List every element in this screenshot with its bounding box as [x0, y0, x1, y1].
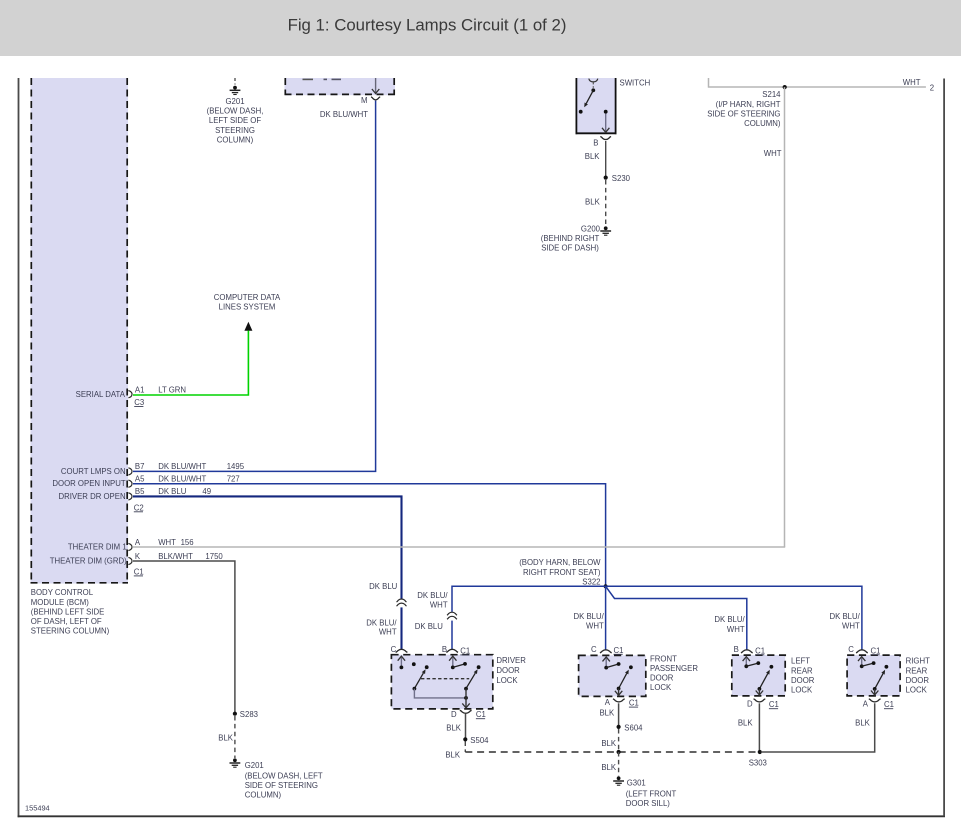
splice S322	[604, 584, 608, 588]
right rear internal arrow	[861, 658, 863, 667]
svg-text:WHT: WHT	[158, 538, 176, 547]
wire S322 right to right rear	[606, 586, 862, 650]
svg-text:DOOR: DOOR	[906, 676, 930, 685]
diagram bottom border	[18, 815, 945, 817]
svg-text:B: B	[593, 139, 598, 148]
svg-text:1750: 1750	[205, 552, 223, 561]
splice S504	[463, 737, 467, 741]
ground G301	[617, 776, 621, 780]
svg-text:BODY CONTROL: BODY CONTROL	[31, 588, 94, 597]
front passenger exit arrow	[618, 689, 620, 696]
right rear door lock box	[847, 655, 900, 696]
dashed BLK S504 down	[464, 742, 466, 753]
svg-text:DRIVER DR OPEN: DRIVER DR OPEN	[58, 492, 125, 501]
front passenger contact dot	[629, 665, 633, 669]
svg-text:STEERING: STEERING	[215, 126, 255, 135]
wire BLK driver D to S504	[465, 714, 467, 738]
svg-text:PASSENGER: PASSENGER	[650, 664, 698, 673]
svg-text:THEATER DIM (GRD): THEATER DIM (GRD)	[50, 557, 127, 566]
driver pin B arc	[446, 649, 458, 652]
pin K connector	[128, 557, 132, 564]
clipped text remnants in box	[303, 78, 314, 80]
svg-text:(BODY HARN, BELOW: (BODY HARN, BELOW	[519, 558, 601, 567]
svg-text:Fig 1: Courtesy Lamps Circuit: Fig 1: Courtesy Lamps Circuit (1 of 2)	[288, 16, 567, 35]
wire DK BLU/WHT connector to driver pin C	[400, 607, 402, 649]
wire S322 down to front passenger	[605, 586, 607, 650]
svg-text:S230: S230	[612, 174, 631, 183]
left rear main blade	[759, 674, 767, 689]
wire WHT theater dim 1 (A to S214)	[133, 546, 785, 548]
arrow inside box pointing down to pin M	[375, 78, 377, 93]
svg-text:COURT LMPS ON: COURT LMPS ON	[61, 467, 126, 476]
svg-text:C1: C1	[476, 710, 486, 719]
svg-text:S214: S214	[762, 90, 781, 99]
svg-text:C3: C3	[134, 398, 144, 407]
switch contact dot right	[604, 110, 608, 114]
pin A1 connector	[128, 391, 132, 398]
svg-text:G201: G201	[245, 761, 264, 770]
left rear internal arrow	[745, 658, 747, 667]
svg-text:(BELOW DASH, LEFT: (BELOW DASH, LEFT	[245, 771, 323, 780]
svg-text:REAR: REAR	[906, 666, 928, 675]
ground G201	[233, 86, 237, 90]
pin A5 connector	[128, 480, 132, 487]
svg-text:BLK: BLK	[855, 718, 871, 727]
svg-text:LEFT SIDE OF: LEFT SIDE OF	[209, 116, 262, 125]
svg-text:C1: C1	[134, 567, 144, 576]
svg-text:(BELOW DASH,: (BELOW DASH,	[207, 107, 264, 116]
svg-text:B: B	[442, 645, 447, 654]
inline connector on driver C wire	[397, 599, 407, 602]
svg-text:A: A	[605, 698, 611, 707]
svg-text:C1: C1	[629, 699, 639, 708]
driver internal link dashed	[421, 678, 469, 680]
driver left blade bottom dot	[413, 687, 417, 691]
svg-text:SERIAL DATA: SERIAL DATA	[76, 390, 126, 399]
front passenger short blade	[606, 664, 618, 668]
driver exit arrow to pin D	[465, 689, 467, 708]
driver right contact dot	[477, 665, 481, 669]
pin M connector arc	[371, 97, 380, 100]
pin A connector	[128, 543, 132, 550]
svg-text:DOOR: DOOR	[496, 666, 520, 675]
svg-text:BLK: BLK	[601, 763, 617, 772]
svg-text:C2: C2	[134, 503, 144, 512]
ground G201 stub wire	[234, 78, 236, 85]
left rear short blade dot	[756, 661, 760, 665]
svg-text:DK BLU/WHT: DK BLU/WHT	[158, 462, 206, 471]
wire WHT horizontal to page edge	[708, 86, 926, 88]
svg-text:G201: G201	[225, 97, 244, 106]
switch pin B connector arc	[600, 137, 611, 140]
svg-text:C1: C1	[614, 646, 624, 655]
svg-text:BLK: BLK	[218, 733, 234, 742]
svg-text:SWITCH: SWITCH	[620, 79, 651, 88]
svg-text:SIDE OF STEERING: SIDE OF STEERING	[245, 781, 318, 790]
right rear main blade	[875, 674, 883, 689]
svg-text:B: B	[734, 645, 739, 654]
front passenger pin C arc	[600, 650, 612, 653]
svg-text:WHT: WHT	[586, 622, 604, 631]
svg-text:COLUMN): COLUMN)	[217, 135, 254, 144]
svg-text:STEERING COLUMN): STEERING COLUMN)	[31, 627, 110, 636]
svg-text:WHT: WHT	[430, 600, 448, 609]
arrow to computer data lines	[244, 322, 252, 331]
svg-text:BLK: BLK	[585, 198, 601, 207]
svg-text:DK BLU/: DK BLU/	[366, 618, 397, 627]
driver B short blade dot	[463, 662, 467, 666]
svg-text:A1: A1	[135, 386, 145, 395]
splice S604	[617, 725, 621, 729]
left rear pin B arc	[741, 650, 753, 653]
svg-text:SIDE OF STEERING: SIDE OF STEERING	[707, 109, 780, 118]
svg-text:LINES SYSTEM: LINES SYSTEM	[219, 302, 276, 311]
diagram right border	[943, 79, 945, 817]
wire WHT stub from top	[708, 78, 710, 87]
ground G200	[604, 226, 608, 230]
svg-text:WHT: WHT	[379, 628, 397, 637]
bus junction dot	[617, 750, 621, 754]
diagram left border	[18, 78, 20, 817]
dashed BLK wire S283 to G201	[234, 716, 236, 758]
svg-text:(I/P HARN, RIGHT: (I/P HARN, RIGHT	[716, 100, 781, 109]
svg-text:LOCK: LOCK	[791, 686, 813, 695]
svg-text:LOCK: LOCK	[650, 683, 672, 692]
driver left blade	[414, 673, 423, 688]
left rear blade bottom dot	[758, 687, 762, 691]
inline connector on driver B wire	[447, 612, 457, 615]
svg-text:LOCK: LOCK	[906, 686, 928, 695]
svg-text:727: 727	[227, 475, 240, 484]
svg-text:LOCK: LOCK	[496, 676, 518, 685]
pin B7 connector	[128, 468, 132, 475]
svg-text:49: 49	[202, 487, 211, 496]
svg-text:156: 156	[181, 538, 194, 547]
wire DK BLU/WHT door open input (A5 to S322)	[133, 484, 606, 587]
svg-text:DOOR: DOOR	[650, 674, 674, 683]
splice S214	[783, 85, 787, 89]
left rear exit arrow	[758, 689, 760, 695]
driver left contact dot	[425, 665, 429, 669]
wire DK BLU driver dr open (B5)	[133, 496, 402, 598]
wire S322 left to driver pin B	[452, 586, 606, 612]
splice S230	[604, 176, 608, 180]
svg-text:DOOR: DOOR	[791, 676, 815, 685]
right rear exit arrow	[874, 689, 876, 695]
driver right blade bottom dot	[464, 687, 468, 691]
wire BLK switch to S230	[605, 141, 607, 176]
svg-text:G301: G301	[627, 779, 646, 788]
driver B short blade	[453, 664, 465, 668]
svg-text:C: C	[848, 645, 854, 654]
left rear door lock box	[732, 655, 785, 696]
svg-text:A: A	[135, 538, 141, 547]
svg-text:G200: G200	[581, 225, 601, 234]
right rear blade bottom dot	[873, 687, 877, 691]
front passenger internal arrow	[605, 658, 607, 668]
svg-text:C: C	[391, 645, 397, 654]
svg-text:DK BLU/WHT: DK BLU/WHT	[158, 475, 206, 484]
splice S303	[758, 750, 762, 754]
svg-text:C1: C1	[769, 700, 779, 709]
switch common dot	[591, 88, 595, 92]
svg-text:(BEHIND LEFT SIDE: (BEHIND LEFT SIDE	[31, 607, 105, 616]
svg-text:S504: S504	[470, 736, 489, 745]
dashed BLK bus to G301	[618, 752, 620, 776]
right rear pin C arc	[856, 650, 868, 653]
svg-text:WHT: WHT	[903, 78, 921, 87]
svg-text:RIGHT FRONT SEAT): RIGHT FRONT SEAT)	[523, 568, 601, 577]
front passenger blade bottom dot	[617, 687, 621, 691]
switch top connector arc Y	[589, 79, 598, 82]
svg-text:S303: S303	[749, 759, 767, 768]
svg-text:DK BLU: DK BLU	[415, 622, 444, 631]
svg-text:BLK: BLK	[446, 724, 462, 733]
driver contact dot c-closed	[412, 662, 416, 666]
switch blade with arrow	[586, 90, 593, 103]
svg-text:A5: A5	[135, 475, 145, 484]
svg-text:DK BLU/: DK BLU/	[573, 612, 604, 621]
front passenger door lock box	[579, 655, 646, 696]
svg-text:BLK: BLK	[585, 152, 601, 161]
driver right blade	[466, 673, 475, 689]
svg-text:D: D	[747, 700, 753, 709]
svg-text:(BEHIND RIGHT: (BEHIND RIGHT	[541, 234, 600, 243]
svg-text:COLUMN): COLUMN)	[744, 119, 781, 128]
svg-text:BLK: BLK	[599, 708, 615, 717]
svg-text:C: C	[591, 645, 597, 654]
left rear contact dot	[770, 665, 774, 669]
body control module BCM box (dashed, clipped top)	[31, 78, 129, 584]
svg-text:BLK: BLK	[445, 751, 461, 760]
svg-text:DK BLU/WHT: DK BLU/WHT	[320, 110, 368, 119]
driver door lock box	[391, 655, 492, 709]
driver bottom junction dot	[464, 696, 468, 700]
dashed BLK bus S504 to S303	[465, 751, 760, 753]
wire BLK/WHT theater dim grd (K to S283)	[133, 561, 235, 712]
dashed BLK S604 to bus	[618, 729, 620, 752]
svg-text:BLK/WHT: BLK/WHT	[158, 552, 193, 561]
header bar	[0, 0, 961, 56]
svg-text:2: 2	[930, 83, 934, 92]
svg-text:FRONT: FRONT	[650, 654, 677, 663]
front passenger short blade dot	[617, 662, 621, 666]
svg-text:B5: B5	[135, 487, 145, 496]
svg-text:(LEFT FRONT: (LEFT FRONT	[626, 790, 677, 799]
wire LT GRN serial data	[133, 331, 248, 396]
svg-text:REAR: REAR	[791, 666, 813, 675]
svg-text:C1: C1	[871, 646, 881, 655]
wire BLK left rear D to S303	[758, 703, 760, 752]
svg-text:S604: S604	[624, 723, 643, 732]
right rear short blade	[862, 663, 874, 666]
svg-text:C1: C1	[884, 700, 894, 709]
svg-text:BLK: BLK	[601, 739, 617, 748]
svg-text:DK BLU: DK BLU	[369, 582, 398, 591]
dashed BLK wire S230 to G200	[605, 180, 607, 226]
svg-text:S283: S283	[240, 710, 258, 719]
driver pin B internal arrow	[452, 657, 454, 667]
driver pin C internal arrow	[400, 657, 402, 667]
front passenger main blade	[619, 673, 627, 688]
switch output arrow down to pin B	[605, 114, 607, 133]
clipped connector box above M	[285, 78, 396, 95]
svg-text:LEFT: LEFT	[791, 657, 810, 666]
svg-text:DK BLU/: DK BLU/	[417, 591, 448, 600]
wire BLK passenger A to S604	[618, 703, 620, 725]
svg-text:DRIVER: DRIVER	[496, 656, 526, 665]
wire S322 jog to left rear	[606, 586, 747, 650]
svg-text:D: D	[451, 710, 457, 719]
svg-text:1495: 1495	[227, 462, 245, 471]
svg-text:RIGHT: RIGHT	[906, 657, 930, 666]
left rear pin D arc	[754, 699, 766, 702]
svg-text:DOOR SILL): DOOR SILL)	[626, 799, 671, 808]
svg-text:LT GRN: LT GRN	[158, 386, 186, 395]
right rear pin A arc	[869, 699, 881, 702]
svg-text:DOOR OPEN INPUT: DOOR OPEN INPUT	[52, 479, 125, 488]
svg-text:WHT: WHT	[842, 622, 860, 631]
wire WHT vertical S214 down	[784, 87, 786, 547]
front passenger pin A arc	[613, 699, 625, 702]
right rear short blade dot	[872, 661, 876, 665]
svg-text:MODULE (BCM): MODULE (BCM)	[31, 598, 89, 607]
svg-text:DK BLU: DK BLU	[158, 487, 187, 496]
svg-text:C1: C1	[755, 646, 765, 655]
right rear contact dot	[885, 665, 889, 669]
driver bottom wire left	[414, 689, 466, 698]
ground G201 bottom	[233, 758, 237, 762]
svg-text:A: A	[863, 700, 869, 709]
svg-text:WHT: WHT	[764, 149, 782, 158]
svg-text:THEATER DIM 1: THEATER DIM 1	[68, 543, 127, 552]
wire DK BLU connector to driver pin B	[451, 621, 453, 650]
svg-text:BLK: BLK	[738, 718, 754, 727]
switch contact dot left	[579, 110, 583, 114]
driver pin C arc	[396, 649, 408, 652]
svg-text:155494: 155494	[25, 804, 50, 813]
svg-text:K: K	[135, 552, 141, 561]
splice S283	[233, 712, 237, 716]
svg-text:C1: C1	[460, 646, 470, 655]
pin B5 connector	[128, 493, 132, 500]
svg-text:COMPUTER DATA: COMPUTER DATA	[214, 293, 281, 302]
svg-text:OF DASH, LEFT OF: OF DASH, LEFT OF	[31, 617, 102, 626]
driver pin D arc	[460, 710, 472, 713]
svg-text:S322: S322	[582, 577, 600, 586]
svg-text:SIDE OF DASH): SIDE OF DASH)	[541, 244, 599, 253]
svg-text:COLUMN): COLUMN)	[245, 791, 282, 800]
svg-text:M: M	[361, 96, 368, 105]
svg-text:WHT: WHT	[727, 625, 745, 634]
svg-text:DK BLU/: DK BLU/	[714, 615, 745, 624]
left rear short blade	[746, 663, 758, 666]
svg-text:DK BLU/: DK BLU/	[829, 612, 860, 621]
svg-text:B7: B7	[135, 462, 145, 471]
courtesy lamp switch box (clipped top)	[576, 78, 617, 134]
wire DK BLU/WHT court lamps on (B7 to M)	[133, 101, 376, 472]
wire BLK right rear A to S303	[761, 703, 875, 752]
